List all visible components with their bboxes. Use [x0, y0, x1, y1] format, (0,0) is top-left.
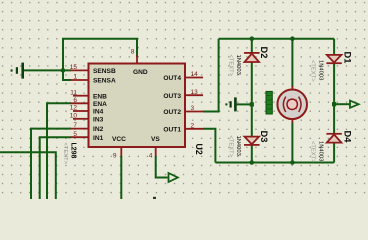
svg-text:D4: D4 — [343, 131, 353, 144]
node: junction SENS wires — [61, 68, 66, 73]
ground (middle, rotated) — [226, 97, 235, 111]
pin numbers left — [70, 64, 78, 138]
green indicator bar — [266, 91, 272, 114]
pin labels inside IC — [93, 68, 181, 143]
svg-text:SENSB: SENSB — [93, 68, 116, 75]
wire: GND pin 8 route up-left — [63, 39, 137, 71]
svg-text:10: 10 — [70, 112, 78, 119]
svg-text:IN1: IN1 — [93, 135, 104, 142]
pin stubs left — [71, 70, 89, 137]
diode D3 — [244, 137, 260, 145]
svg-text:<TEXT>: <TEXT> — [310, 141, 316, 163]
svg-text:<TEXT>: <TEXT> — [62, 143, 68, 165]
svg-text:<TEXT>: <TEXT> — [310, 60, 316, 82]
op-amp U2 body (L298 IC) — [89, 64, 186, 148]
wire: D1/D4 vertical — [333, 39, 335, 55]
svg-text:D2: D2 — [259, 47, 269, 59]
node: bottom rail junction at motor — [290, 160, 295, 165]
svg-text:13: 13 — [191, 89, 199, 96]
wire: motor vertical top — [291, 39, 293, 87]
svg-text:IN2: IN2 — [93, 126, 104, 133]
svg-text:ENA: ENA — [93, 101, 107, 108]
svg-text:OUT2: OUT2 — [163, 109, 181, 116]
pin stub top (GND pin 8) — [136, 55, 138, 64]
svg-text:VS: VS — [151, 136, 160, 143]
ground (left) — [12, 63, 23, 79]
wire: D2/D3 vertical — [251, 39, 253, 53]
svg-text:7: 7 — [73, 122, 77, 129]
node: bottom rail junction at D3 — [250, 160, 255, 165]
wire: OUT1 down to bottom rail — [203, 129, 215, 163]
svg-text:IN3: IN3 — [93, 116, 104, 123]
svg-text:D1: D1 — [343, 52, 353, 64]
svg-text:OUT1: OUT1 — [163, 126, 181, 133]
svg-text:1N4003: 1N4003 — [235, 136, 241, 156]
diode D2 — [244, 53, 260, 62]
wire: VCC pin down — [120, 156, 122, 199]
svg-text:OUT3: OUT3 — [163, 93, 181, 100]
wire: IN2 down — [31, 129, 71, 199]
partial mark at bottom edge — [153, 197, 156, 199]
terminal arrow (right) — [350, 101, 359, 108]
motor brush arcs left — [283, 97, 285, 112]
svg-text:11: 11 — [70, 89, 77, 96]
svg-text:1N4003: 1N4003 — [235, 55, 241, 75]
svg-text:12: 12 — [70, 105, 78, 112]
terminal arrow — [169, 173, 178, 182]
node: top rail junction at D2 — [250, 36, 255, 41]
svg-text:<TEXT>: <TEXT> — [228, 55, 234, 77]
svg-text:1N4003: 1N4003 — [318, 60, 324, 80]
diode D4 — [326, 134, 341, 143]
svg-text:1N4003: 1N4003 — [318, 141, 324, 161]
motor brush arcs right — [299, 97, 301, 112]
motor commutator ring — [287, 99, 297, 109]
wire: VS pin to terminal — [156, 156, 168, 178]
svg-text:5: 5 — [73, 131, 77, 138]
svg-text:9: 9 — [113, 153, 117, 160]
svg-text:<TEXT>: <TEXT> — [228, 136, 234, 158]
wire: bottom rail — [215, 162, 334, 164]
wire: ground to SENSB — [24, 69, 71, 71]
svg-text:14: 14 — [191, 71, 199, 78]
pin stubs bottom (VCC 9, VS 4) — [120, 147, 122, 156]
wire: right net to power terminal — [334, 103, 350, 105]
svg-text:8: 8 — [131, 49, 135, 56]
svg-text:4: 4 — [149, 153, 153, 160]
svg-text:L298: L298 — [70, 143, 77, 159]
pin stubs right — [185, 78, 203, 129]
wire: IN1 down — [40, 137, 71, 199]
wire: mid ground to D2/D3 net — [237, 103, 252, 105]
wire: ENA down — [47, 103, 71, 199]
svg-text:U2: U2 — [194, 144, 204, 155]
wire: top rail — [219, 38, 335, 40]
svg-text:1: 1 — [73, 74, 77, 81]
svg-text:GND: GND — [133, 69, 148, 76]
wire: motor vertical bottom — [291, 123, 293, 163]
svg-text:3: 3 — [191, 105, 195, 112]
svg-text:15: 15 — [70, 64, 78, 71]
wire: OUT2 up to top rail — [203, 39, 219, 112]
svg-text:VCC: VCC — [112, 136, 126, 143]
node: square junction on D1/D4 net — [332, 102, 336, 106]
svg-text:OUT4: OUT4 — [163, 75, 181, 82]
svg-text:6: 6 — [73, 97, 77, 104]
wire: junction down to SENSA — [63, 70, 71, 80]
svg-text:IN4: IN4 — [93, 109, 104, 116]
wire: bottom-left horizontal — [0, 152, 56, 199]
motor pin stubs — [291, 86, 293, 90]
svg-text:SENSA: SENSA — [93, 78, 116, 85]
pin numbers right — [191, 71, 199, 129]
node: square junction — [250, 102, 254, 106]
svg-text:2: 2 — [191, 122, 195, 129]
diode D1 — [326, 55, 341, 63]
node: top rail junction at motor — [290, 36, 295, 41]
motor body — [277, 90, 307, 120]
svg-text:ENB: ENB — [93, 93, 107, 100]
svg-text:D3: D3 — [259, 131, 269, 143]
